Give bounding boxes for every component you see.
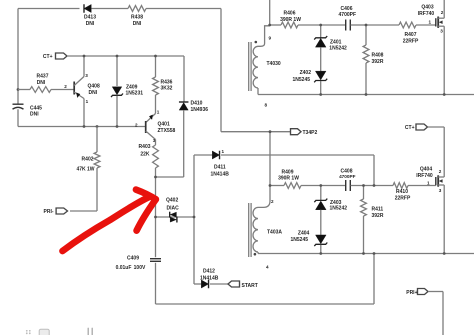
svg-text:2: 2 [135, 122, 138, 127]
svg-text:3: 3 [85, 73, 88, 78]
svg-text:R406: R406 [284, 11, 296, 17]
svg-text:2: 2 [64, 84, 67, 89]
svg-text:R407: R407 [405, 32, 417, 38]
svg-text:47K 1W: 47K 1W [76, 167, 94, 173]
svg-text:2: 2 [441, 10, 444, 15]
svg-text:1N5245: 1N5245 [292, 77, 310, 83]
svg-text:22RFP: 22RFP [403, 38, 419, 44]
svg-text:1: 1 [428, 19, 431, 24]
svg-text:T4030: T4030 [267, 61, 281, 67]
svg-text:1: 1 [86, 99, 89, 104]
svg-text:3: 3 [439, 188, 442, 193]
svg-text:1: 1 [427, 180, 430, 185]
svg-text:Q403: Q403 [421, 5, 433, 11]
svg-text:PRI+: PRI+ [406, 290, 417, 296]
svg-text:22K: 22K [140, 151, 150, 157]
svg-text:392R: 392R [372, 213, 384, 219]
svg-text:T34P2: T34P2 [303, 130, 318, 136]
svg-text:390R 1W: 390R 1W [280, 17, 301, 23]
svg-text:T403A: T403A [267, 230, 282, 236]
svg-text:Z409: Z409 [126, 84, 138, 90]
svg-text:9: 9 [269, 36, 272, 41]
svg-text:PRI-: PRI- [44, 209, 54, 215]
svg-text:0.01uF: 0.01uF [116, 265, 132, 271]
svg-text:Z404: Z404 [298, 231, 310, 237]
svg-text:Z402: Z402 [300, 70, 312, 76]
svg-text:2: 2 [271, 199, 274, 204]
svg-text:D413: D413 [84, 15, 96, 21]
svg-text:R411: R411 [372, 206, 384, 212]
svg-text:IRF740: IRF740 [416, 173, 433, 179]
svg-text:3: 3 [440, 29, 443, 34]
svg-text:Q404: Q404 [420, 167, 432, 173]
svg-text:390R 1W: 390R 1W [278, 175, 299, 181]
svg-text:CT+: CT+ [43, 54, 53, 60]
svg-text:1: 1 [157, 110, 160, 115]
svg-text:R410: R410 [396, 189, 408, 195]
svg-text:DNI: DNI [133, 21, 142, 27]
svg-text:R437: R437 [37, 74, 49, 80]
svg-text:3: 3 [153, 138, 156, 143]
svg-text:1N5242: 1N5242 [330, 206, 348, 212]
svg-text:Q402: Q402 [166, 197, 178, 203]
svg-text:1N414B: 1N414B [211, 171, 230, 177]
svg-text:C406: C406 [341, 6, 353, 12]
svg-text:Q401: Q401 [158, 121, 170, 127]
svg-text:D411: D411 [214, 164, 226, 170]
svg-text:R438: R438 [131, 15, 143, 21]
svg-text:DIAC: DIAC [167, 206, 180, 212]
svg-text:1N4936: 1N4936 [191, 107, 209, 113]
svg-text:392R: 392R [372, 59, 384, 65]
svg-text:8: 8 [265, 102, 268, 107]
svg-text:D412: D412 [203, 268, 215, 274]
svg-text:4700PF: 4700PF [339, 12, 357, 18]
svg-text:4: 4 [266, 264, 269, 269]
svg-text:C409: C409 [127, 256, 139, 262]
svg-text:DNI: DNI [30, 112, 39, 118]
svg-text:1N5231: 1N5231 [126, 91, 144, 97]
svg-text:1N414B: 1N414B [200, 275, 219, 281]
svg-text:R402: R402 [82, 157, 94, 163]
svg-text:R408: R408 [372, 52, 384, 58]
svg-text:Q408: Q408 [88, 83, 100, 89]
svg-text:1: 1 [222, 149, 225, 154]
svg-text:C445: C445 [30, 105, 42, 111]
svg-text:START: START [242, 283, 258, 289]
svg-text:3K32: 3K32 [161, 85, 173, 91]
svg-text:DNI: DNI [89, 90, 98, 96]
svg-text:100V: 100V [134, 265, 146, 271]
svg-text:CT+: CT+ [405, 125, 415, 131]
svg-text:2: 2 [439, 169, 442, 174]
svg-text:1N5242: 1N5242 [329, 46, 347, 52]
svg-text:DNI: DNI [86, 21, 95, 27]
svg-text:D410: D410 [191, 100, 203, 106]
svg-text:ZTX558: ZTX558 [158, 128, 176, 134]
svg-text:1N5245: 1N5245 [290, 237, 308, 243]
svg-text:IRF740: IRF740 [418, 11, 435, 17]
svg-text:4700PF: 4700PF [339, 174, 356, 179]
svg-text:DNI: DNI [37, 80, 46, 86]
svg-text:22RFP: 22RFP [395, 195, 411, 201]
svg-text:R403: R403 [139, 144, 151, 150]
